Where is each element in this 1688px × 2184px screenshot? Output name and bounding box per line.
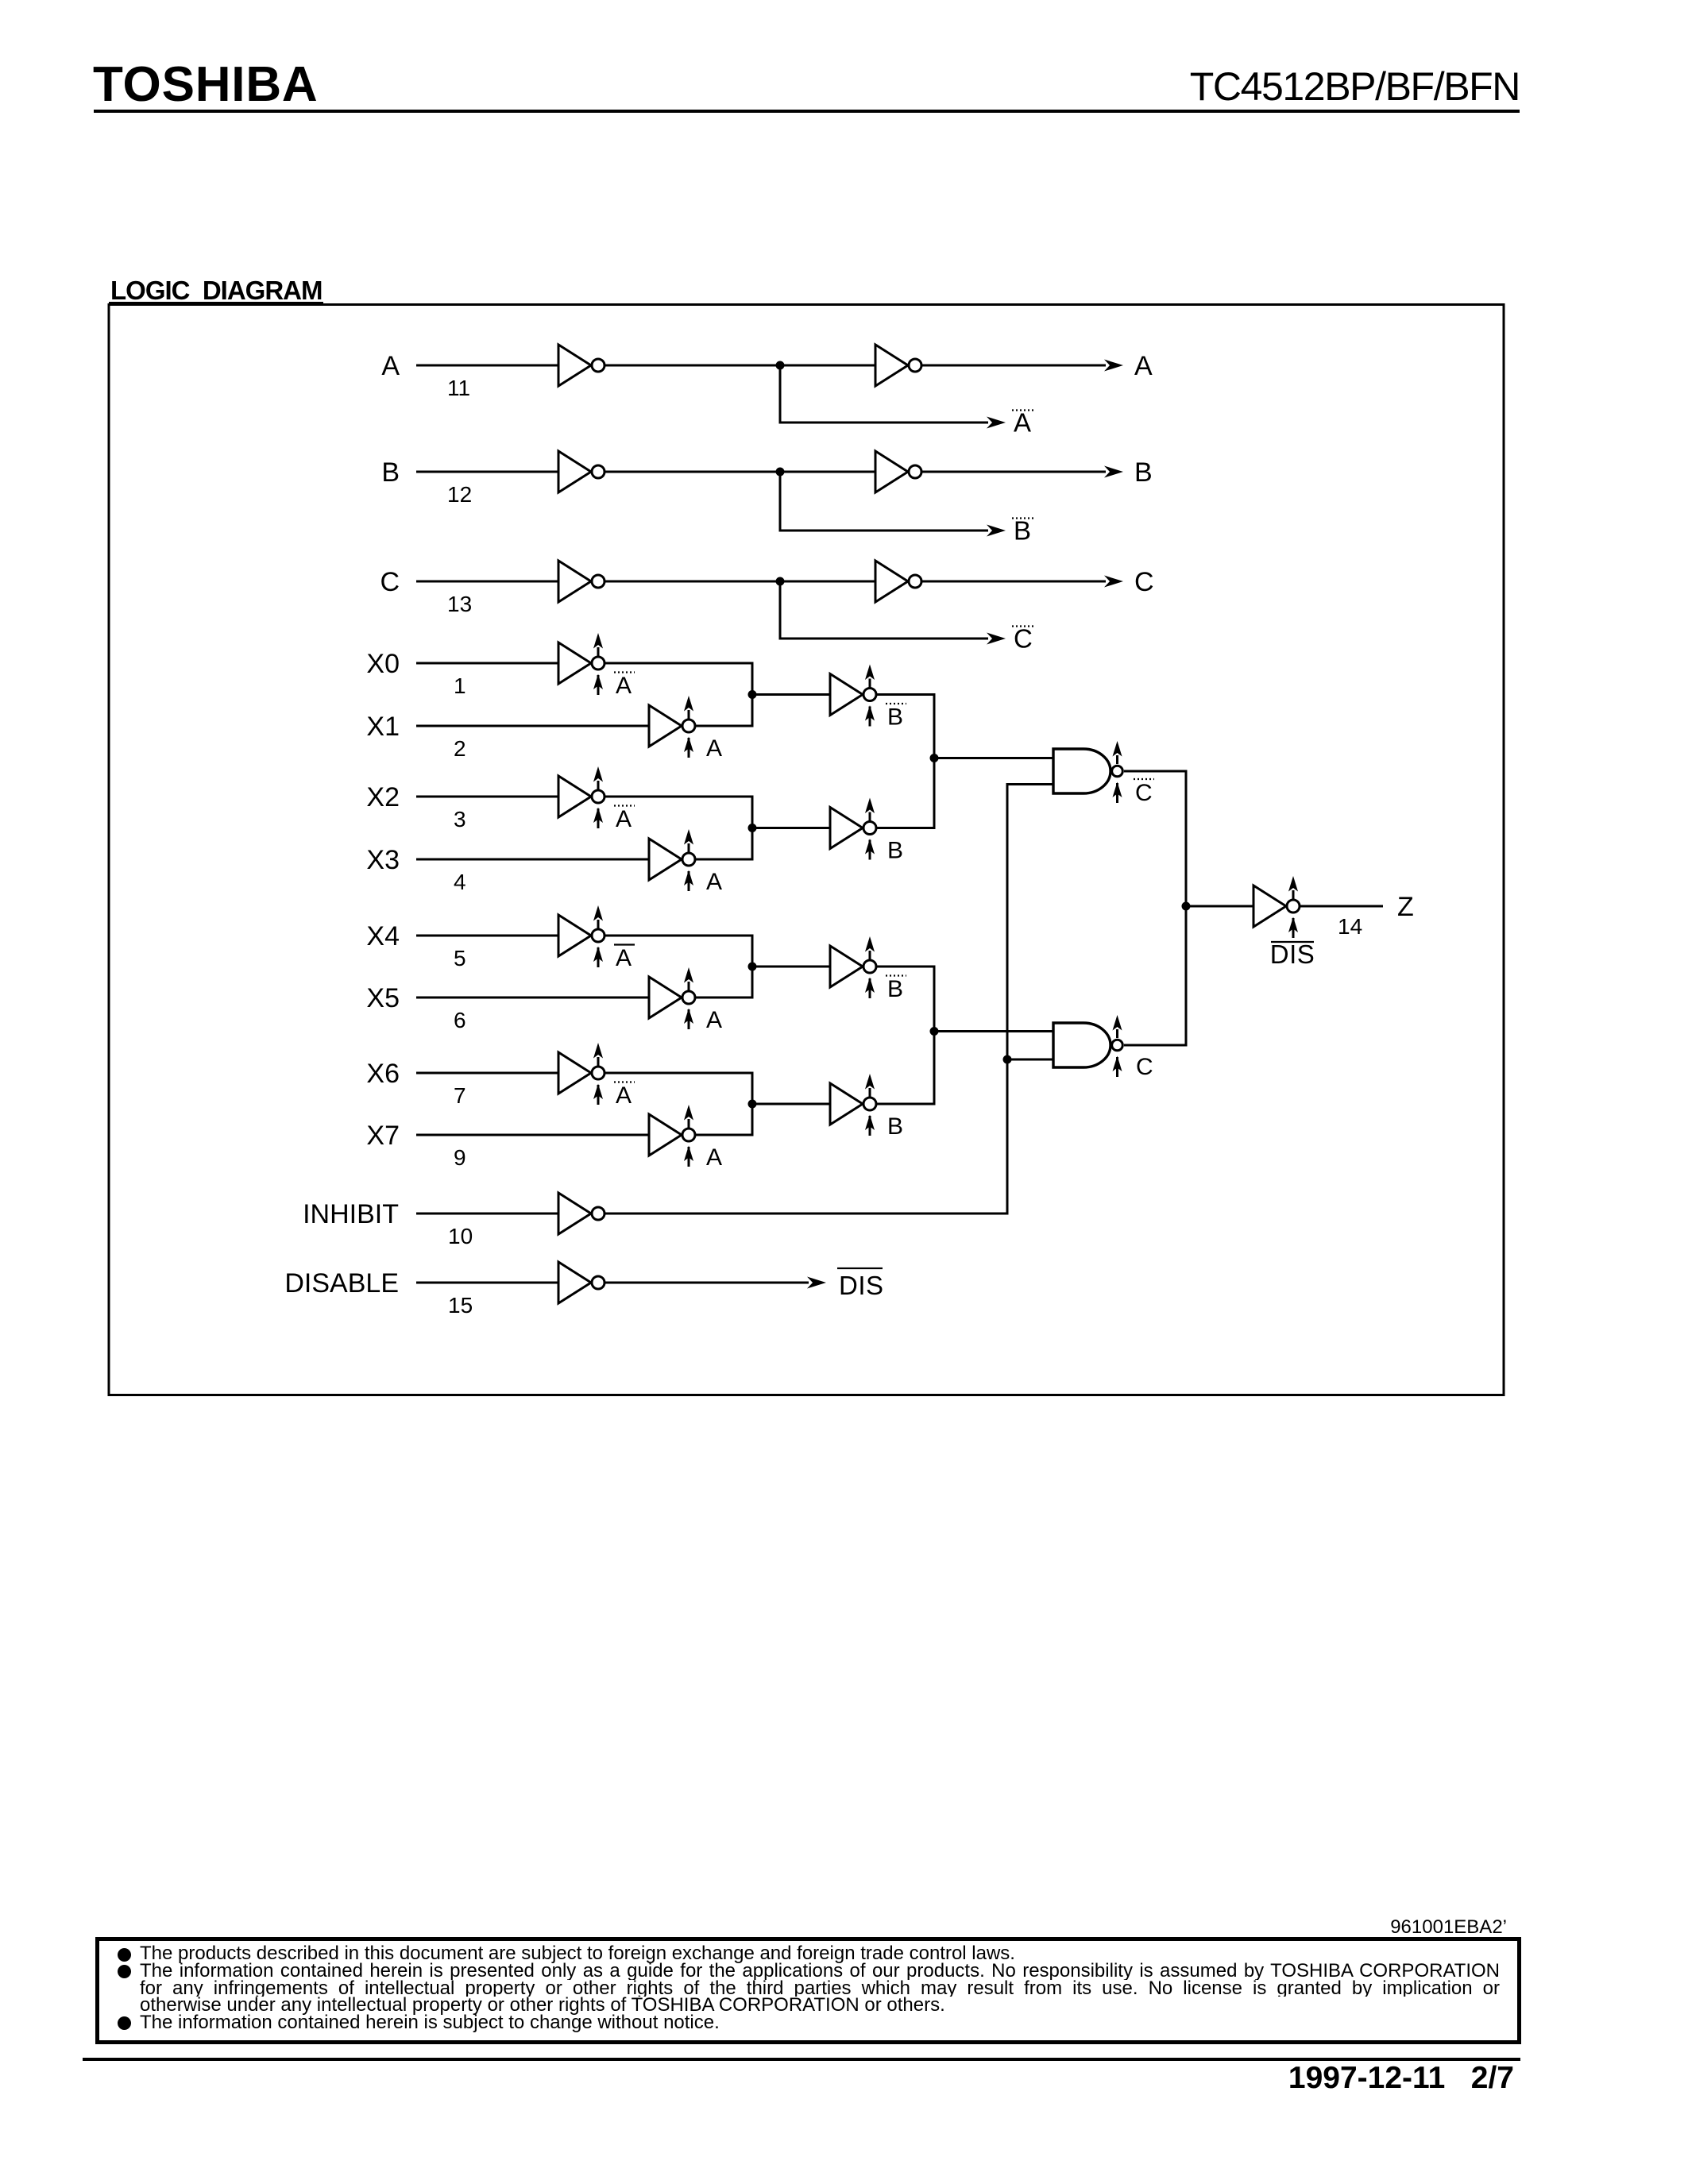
svg-text:C: C [1135,780,1153,806]
node B-bar label [1012,516,1034,546]
svg-text:14: 14 [1338,914,1362,939]
transmission-gate inverter X7 (A control) [649,1105,695,1167]
pin 6 [454,1008,466,1032]
svg-text:B: B [887,704,903,731]
disclaimer bullet 2 [118,1965,131,1978]
wire B4 output [877,1032,934,1105]
label B control B4 [887,1113,903,1140]
junction X6/X7 [748,1100,757,1109]
svg-text:B: B [887,976,903,1002]
node DIS label [837,1268,884,1300]
wire B1 output [877,695,934,758]
svg-text:A: A [706,1007,722,1033]
junction pair X0-X3 [930,754,939,762]
svg-text:3: 3 [454,807,466,832]
svg-text:C: C [380,567,400,597]
wire C-bar branch [780,581,1006,645]
wire X0 input [416,662,558,665]
wire B-bar branch [780,472,1006,537]
wire NAND G1 output [1124,771,1186,906]
junction INHIBIT to G2 [1003,1055,1012,1064]
wire B input [416,471,558,473]
node A input label [381,351,400,381]
disclaimer text [140,1945,1500,2032]
svg-text:B: B [1134,457,1153,488]
node A output label [1134,351,1153,381]
transmission-gate inverter Z (DIS control) [1253,876,1300,938]
label A-bar control X6 [614,1082,635,1109]
disclaimer bullet 3 [118,2016,131,2030]
label C-bar control G1 [1134,779,1154,806]
wire to output inverter [1186,905,1253,908]
node X2 input label [366,782,400,812]
pin 11 [447,376,470,400]
disclaimer bullet 1 [118,1948,131,1962]
node A-bar label [1012,408,1034,438]
svg-text:A: A [1014,408,1031,438]
transmission-gate inverter B2 (B control) [830,798,876,860]
disclaimer box [95,1937,1521,2044]
svg-text:11: 11 [447,376,470,400]
node INHIBIT input label [303,1199,399,1229]
wire NAND G2 input 2 [1007,1059,1053,1061]
LOGIC DIAGRAM heading [110,276,322,306]
node B output label [1134,457,1153,488]
logic diagram frame [109,305,1504,1395]
node C output label [1134,567,1154,597]
wire X4 output [605,936,752,967]
node C input label [380,567,400,597]
node DISABLE input label [284,1268,399,1298]
wire X0 output [605,663,752,695]
svg-text:7: 7 [454,1083,466,1108]
junction X0/X1 [748,690,757,699]
transmission-gate inverter X2 (A control) [558,766,605,828]
svg-text:A: A [1134,351,1153,381]
document code 961001EBA2' [0,1916,1507,1939]
svg-text:INHIBIT: INHIBIT [303,1199,399,1229]
pin 13 [447,592,472,616]
wire X4 input [416,935,558,937]
label A control X1 [706,735,722,762]
wire X3 output [696,828,752,860]
pin 1 [454,673,466,698]
svg-text:A: A [381,351,400,381]
svg-text:X2: X2 [366,782,400,812]
svg-text:X5: X5 [366,983,400,1013]
node C junction [776,577,785,586]
transmission-gate inverter X6 (A control) [558,1043,605,1105]
transmission-gate inverter X4 (A control) [558,905,605,967]
label B control B2 [887,838,903,864]
node X5 input label [366,983,400,1013]
node X4 input label [366,921,400,951]
label B-bar control B1 [886,704,906,731]
wire X7 output [696,1104,752,1135]
svg-text:Z: Z [1397,892,1414,922]
svg-text:B: B [381,457,400,488]
svg-text:A: A [616,673,632,699]
wire X1 output [696,695,752,727]
wire NAND G2 output [1124,906,1186,1045]
svg-text:X1: X1 [366,712,400,742]
wire X6 input [416,1072,558,1075]
svg-text:A: A [616,945,632,971]
NAND gate G2 (C control) [1053,1015,1122,1077]
transmission-gate inverter B4 (B control) [830,1074,876,1136]
node X6 input label [366,1059,400,1089]
svg-text:A: A [616,1082,632,1109]
node X3 input label [366,845,400,875]
transmission-gate inverter X0 (A control) [558,633,605,695]
wire X2/X3 to B stage [752,827,830,829]
node Z junction [1182,902,1191,911]
wire NAND G2 input 1 [934,1030,1053,1032]
svg-text:1: 1 [454,673,466,698]
svg-text:15: 15 [448,1293,473,1318]
svg-text:A: A [706,1144,722,1171]
wire INHIBIT to NAND G1 [605,785,1053,1214]
part number TC4512BP/BF/BFN [1190,64,1520,110]
wire X2 input [416,796,558,798]
transmission-gate inverter X3 (A control) [649,829,695,891]
svg-text:X0: X0 [366,649,400,679]
svg-text:6: 6 [454,1008,466,1032]
inverter A2 [875,345,921,386]
svg-text:X4: X4 [366,921,400,951]
node Z output label [1397,892,1414,922]
label C control G2 [1136,1054,1153,1080]
wire B2 output [877,758,934,828]
svg-text:A: A [616,806,632,832]
node X0 input label [366,649,400,679]
svg-text:B: B [1014,516,1031,546]
inverter U-INH [558,1193,605,1234]
wire X6/X7 to B stage [752,1103,830,1106]
label A-bar control X4 [614,945,635,972]
svg-text:B: B [887,1113,903,1140]
svg-text:DIS: DIS [1270,940,1315,969]
pin 14 [1338,914,1362,939]
wire X2 output [605,797,752,828]
node X1 input label [366,712,400,742]
svg-text:12: 12 [447,482,472,507]
wire A-bar branch [780,365,1006,429]
NAND gate G1 (C-bar control) [1053,741,1122,803]
junction X2/X3 [748,824,757,832]
svg-text:C: C [1014,624,1033,654]
label A-bar control X2 [614,806,635,833]
pin 3 [454,807,466,832]
wire X5 input [416,997,649,999]
wire C1 output [605,581,875,583]
label DIS control Z [1270,940,1315,969]
transmission-gate inverter X1 (A control) [649,696,695,758]
svg-text:5: 5 [454,946,466,970]
header rule [94,110,1520,113]
svg-text:C: C [1136,1054,1153,1080]
label A control X7 [706,1144,722,1171]
label A control X3 [706,869,722,895]
TOSHIBA logotype [93,56,318,113]
wire X7 input [416,1134,649,1136]
svg-text:4: 4 [454,870,466,894]
node B junction [776,468,785,477]
inverter C2 [875,561,921,602]
wire X0/X1 to B stage [752,693,830,696]
wire X3 input [416,859,649,861]
wire A1 output [605,365,875,367]
wire Z output [1300,905,1383,908]
svg-text:DISABLE: DISABLE [284,1268,399,1298]
pin 9 [454,1145,466,1170]
wire A input [416,365,558,367]
inverter U-DIS [558,1262,605,1303]
date and page number [0,2061,1514,2096]
wire X6 output [605,1073,752,1104]
wire NAND G1 input 1 [934,757,1053,759]
svg-text:X7: X7 [366,1121,400,1151]
svg-text:A: A [706,869,722,895]
pin 7 [454,1083,466,1108]
pin 5 [454,946,466,970]
svg-text:10: 10 [448,1224,473,1248]
inverter B2 [875,451,921,492]
wire X5 output [696,967,752,997]
wire B1 output [605,471,875,473]
wire C output [922,576,1123,588]
svg-text:DIS: DIS [839,1271,884,1300]
pin 15 [448,1293,473,1318]
svg-text:B: B [887,838,903,864]
transmission-gate inverter B3 (B control) [830,936,876,998]
pin 12 [447,482,472,507]
pin 4 [454,870,466,894]
node A junction [776,361,785,370]
node X7 input label [366,1121,400,1151]
transmission-gate inverter B1 (B control) [830,665,876,727]
pin 2 [454,736,466,761]
wire A output [922,360,1123,372]
wire X1 input [416,725,649,727]
wire DIS output [605,1277,826,1289]
wire B output [922,466,1123,478]
svg-text:C: C [1134,567,1154,597]
wire DISABLE input [416,1282,558,1284]
wire X4/X5 to B stage [752,966,830,968]
footer rule [83,2058,1520,2061]
svg-text:X3: X3 [366,845,400,875]
svg-text:9: 9 [454,1145,466,1170]
svg-text:13: 13 [447,592,472,616]
inverter C1 [558,561,605,602]
svg-text:2: 2 [454,736,466,761]
inverter B1 [558,451,605,492]
junction X4/X5 [748,963,757,971]
svg-text:X6: X6 [366,1059,400,1089]
label A-bar control X0 [614,673,635,700]
heading underline [109,302,323,306]
wire B3 output [877,967,934,1032]
node C-bar label [1012,624,1034,654]
wire C input [416,581,558,583]
svg-text:A: A [706,735,722,762]
label A control X5 [706,1007,722,1033]
node B input label [381,457,400,488]
label B-bar control B3 [886,976,906,1003]
pin 10 [448,1224,473,1248]
transmission-gate inverter X5 (A control) [649,967,695,1029]
inverter A1 [558,345,605,386]
junction pair X4-X7 [930,1027,939,1036]
wire INHIBIT input [416,1213,558,1215]
